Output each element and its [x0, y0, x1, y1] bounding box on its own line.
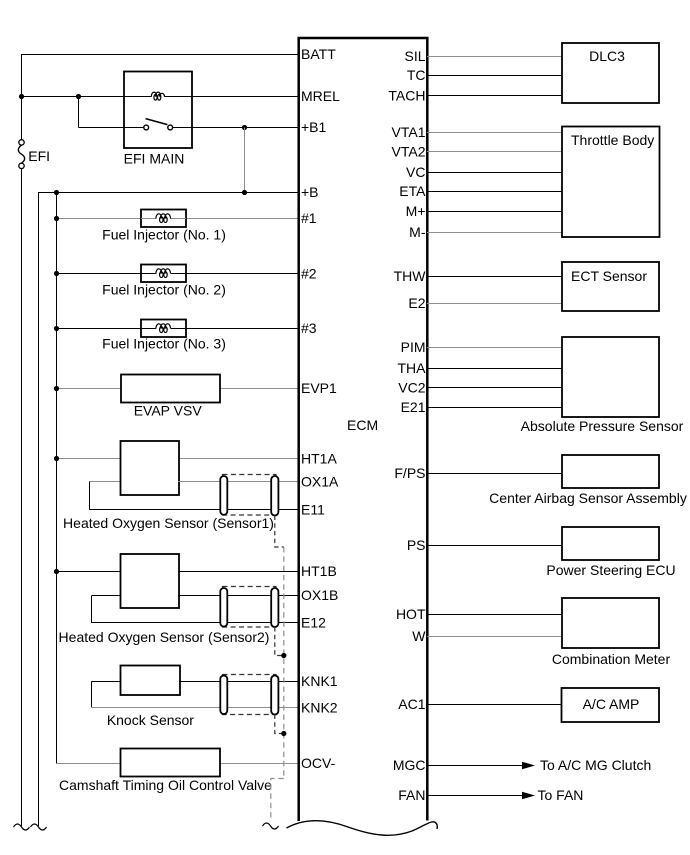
wire +B1 to +B drop	[244, 128, 246, 193]
svg-text:HT1A: HT1A	[301, 451, 337, 467]
svg-text:Absolute Pressure Sensor: Absolute Pressure Sensor	[521, 418, 684, 434]
svg-text:EFI MAIN: EFI MAIN	[124, 151, 185, 167]
svg-text:#3: #3	[301, 320, 317, 336]
svg-text:OX1A: OX1A	[301, 474, 339, 490]
wire VC	[427, 172, 562, 174]
node shield junction HOS2	[281, 653, 286, 658]
wire PS	[427, 545, 562, 547]
svg-text:Knock Sensor: Knock Sensor	[107, 712, 194, 728]
svg-text:AC1: AC1	[398, 696, 425, 712]
ECM bottom break curve	[287, 821, 438, 836]
wire HT1A	[56, 458, 299, 460]
svg-text:+B: +B	[301, 184, 319, 200]
svg-text:#1: #1	[301, 210, 317, 226]
svg-text:Heated Oxygen Sensor (Sensor2): Heated Oxygen Sensor (Sensor2)	[59, 629, 270, 645]
svg-text:W: W	[412, 628, 426, 644]
wire KNK1 through connector	[179, 681, 299, 683]
relay switch wire right	[173, 127, 192, 129]
svg-text:HOT: HOT	[396, 606, 426, 622]
relay coil wire right	[164, 96, 192, 98]
break symbol BATT rail	[14, 824, 30, 830]
injector 2 coil	[156, 269, 171, 278]
svg-text:EVAP VSV: EVAP VSV	[134, 403, 203, 419]
svg-text:M-: M-	[409, 224, 426, 240]
svg-text:E12: E12	[301, 615, 326, 631]
wire BATT horizontal	[21, 54, 299, 56]
node #3 junction	[54, 326, 59, 331]
wire E11 through connector	[178, 509, 299, 511]
wire E12 through connector	[178, 622, 299, 624]
svg-text:VC: VC	[406, 164, 425, 180]
wire OX1A through connector	[178, 481, 299, 483]
svg-text:OCV-: OCV-	[301, 755, 336, 771]
wire OX1B	[178, 595, 299, 597]
svg-text:TC: TC	[407, 67, 426, 83]
svg-text:A/C AMP: A/C AMP	[583, 696, 640, 712]
wire E21	[427, 407, 562, 409]
connector HOS1 capsule left	[220, 476, 227, 515]
wire M+	[427, 211, 562, 213]
shield dashed drop from HOS1	[275, 516, 284, 548]
svg-text:E21: E21	[401, 399, 426, 415]
svg-text:BATT: BATT	[301, 46, 336, 62]
injector 1 wire right	[171, 218, 186, 220]
wire #3	[56, 328, 299, 330]
break symbol +B rail	[31, 824, 47, 830]
injector 1 box	[141, 210, 186, 228]
box Center Airbag Sensor Assembly	[562, 455, 659, 488]
wire KNK2	[91, 707, 299, 709]
relay coil	[151, 92, 164, 100]
svg-text:THW: THW	[394, 268, 427, 284]
node +B drop junction	[242, 190, 247, 195]
svg-text:FAN: FAN	[398, 787, 425, 803]
wire TACH	[427, 95, 562, 97]
box DLC3	[562, 43, 659, 103]
relay switch contact right	[168, 125, 173, 130]
wire EVP1	[56, 388, 299, 390]
wire BATT rail vertical upper	[21, 54, 23, 140]
relay EFI MAIN box	[124, 72, 192, 149]
wire OX1B stub	[92, 595, 122, 597]
wire PIM	[427, 347, 562, 349]
svg-text:THA: THA	[398, 360, 427, 376]
wire KNK2 loop vertical	[91, 682, 93, 708]
wire F/PS	[427, 473, 562, 475]
wire E12 loop vertical	[91, 596, 93, 623]
fuse EFI	[18, 140, 24, 169]
sensor HOS1 box	[121, 441, 180, 495]
svg-text:Heated Oxygen Sensor (Sensor1): Heated Oxygen Sensor (Sensor1)	[63, 515, 274, 531]
wire E12	[91, 622, 299, 624]
relay switch contact left	[144, 125, 149, 130]
wire THA	[427, 368, 562, 370]
svg-text:ETA: ETA	[399, 183, 426, 199]
shield dashed main vertical	[283, 547, 285, 779]
arrowhead FAN	[522, 792, 535, 800]
wire M-	[427, 232, 562, 234]
wire E11 loop vertical	[89, 482, 91, 510]
connector knock dashed rect	[223, 675, 277, 715]
svg-text:To FAN: To FAN	[538, 787, 584, 803]
injector 2 box	[141, 265, 186, 283]
relay coil wire left	[124, 96, 152, 98]
shield dashed bottom jog	[271, 779, 284, 822]
wire W	[427, 636, 562, 638]
wire MREL to +B1 drop	[78, 97, 80, 128]
node MREL rail junction	[19, 94, 24, 99]
injector 3 coil	[156, 324, 171, 333]
wire OCV-	[56, 763, 299, 765]
wire MREL	[21, 96, 299, 98]
wire VTA1	[427, 132, 562, 134]
wire KNK1 stub	[92, 681, 122, 683]
svg-text:PIM: PIM	[401, 339, 426, 355]
wire HOT	[427, 614, 562, 616]
wire SIL	[427, 56, 562, 58]
wire +B rail vertical	[38, 193, 40, 827]
wire ETA	[427, 191, 562, 193]
svg-text:SIL: SIL	[404, 48, 425, 64]
box A/C AMP	[562, 688, 660, 722]
wire E11	[89, 509, 299, 511]
wire THW	[427, 276, 562, 278]
box Combination Meter	[562, 598, 659, 648]
wire HT1B	[56, 571, 299, 573]
injector 1 wire left	[141, 218, 156, 220]
svg-text:Fuel Injector (No. 3): Fuel Injector (No. 3)	[102, 336, 226, 352]
node bus top junction	[54, 190, 59, 195]
wire +B horizontal	[38, 192, 299, 194]
svg-text:ECT Sensor: ECT Sensor	[571, 268, 647, 284]
svg-text:HT1B: HT1B	[301, 563, 337, 579]
injector 3 wire left	[141, 328, 156, 330]
wire OX1B through connector	[178, 595, 299, 597]
svg-text:PS: PS	[407, 537, 426, 553]
svg-text:OX1B: OX1B	[301, 587, 338, 603]
connector HOS2 capsule right	[271, 588, 278, 627]
node #1 junction	[54, 216, 59, 221]
svg-text:Throttle Body: Throttle Body	[571, 132, 654, 148]
arrowhead MGC	[522, 762, 535, 770]
svg-text:+B1: +B1	[301, 119, 327, 135]
svg-text:Fuel Injector (No. 1): Fuel Injector (No. 1)	[102, 227, 226, 243]
node +B1 junction	[242, 125, 247, 130]
svg-text:F/PS: F/PS	[394, 465, 425, 481]
wire +B1	[79, 127, 300, 129]
wire AC1	[427, 704, 562, 706]
node shield junction knock	[281, 731, 286, 736]
svg-text:#2: #2	[301, 266, 317, 282]
box Absolute Pressure Sensor	[562, 337, 659, 417]
valve EVAP VSV box	[121, 375, 220, 403]
injector 3 box	[141, 320, 186, 338]
svg-text:E2: E2	[408, 295, 425, 311]
injector 1 coil	[156, 214, 171, 223]
shield dashed drop from HOS2	[275, 627, 284, 656]
box Throttle Body	[562, 127, 660, 238]
injector 2 wire left	[141, 273, 156, 275]
svg-text:To A/C MG Clutch: To A/C MG Clutch	[540, 757, 651, 773]
svg-text:M+: M+	[406, 203, 426, 219]
svg-text:Fuel Injector (No. 2): Fuel Injector (No. 2)	[102, 282, 226, 298]
wire BATT rail vertical lower	[21, 168, 23, 826]
svg-text:TACH: TACH	[388, 88, 425, 104]
wire #1	[56, 218, 299, 220]
svg-text:MGC: MGC	[393, 757, 426, 773]
svg-text:KNK2: KNK2	[301, 700, 338, 716]
node HT1B junction	[54, 569, 59, 574]
break symbol shield line	[263, 823, 279, 829]
node EVP1 junction	[54, 386, 59, 391]
wire VTA2	[427, 151, 562, 153]
connector knock capsule left	[220, 676, 227, 715]
connector knock capsule right	[271, 676, 278, 715]
connector HOS2 capsule left	[220, 588, 227, 627]
injector 2 wire right	[171, 273, 186, 275]
node MREL branch junction	[76, 94, 81, 99]
svg-text:Power Steering ECU: Power Steering ECU	[546, 562, 675, 578]
box Power Steering ECU	[562, 527, 659, 560]
sensor knock box	[121, 666, 181, 696]
wire TC	[427, 75, 562, 77]
svg-text:VTA2: VTA2	[392, 144, 426, 160]
svg-text:EVP1: EVP1	[301, 380, 337, 396]
sensor HOS2 box	[121, 554, 180, 608]
relay switch blade	[146, 119, 168, 125]
wire KNK2 through connector	[179, 707, 299, 709]
connector HOS1 capsule right	[271, 476, 278, 516]
svg-text:MREL: MREL	[301, 88, 340, 104]
wire OX1A	[178, 481, 299, 483]
box ECT Sensor	[562, 262, 659, 311]
svg-text:ECM: ECM	[347, 417, 378, 433]
wire VC2	[427, 387, 562, 389]
relay switch wire left	[124, 127, 144, 129]
wire OX1A stub	[90, 481, 122, 483]
svg-text:VC2: VC2	[398, 380, 425, 396]
connector HOS1 dashed rect	[223, 475, 277, 516]
valve camshaft timing OCV box	[121, 749, 221, 777]
wire E2	[427, 303, 562, 305]
svg-text:Combination Meter: Combination Meter	[552, 651, 671, 667]
svg-text:DLC3: DLC3	[589, 48, 625, 64]
shield dashed drop from knock	[275, 715, 284, 734]
svg-text:KNK1: KNK1	[301, 673, 338, 689]
svg-text:VTA1: VTA1	[392, 124, 426, 140]
svg-text:Center Airbag Sensor Assembly: Center Airbag Sensor Assembly	[489, 490, 687, 506]
wire #2	[56, 273, 299, 275]
connector HOS2 dashed rect	[223, 587, 277, 628]
svg-text:E11: E11	[301, 502, 325, 518]
wire FAN arrow line	[427, 795, 523, 797]
wire MGC arrow line	[427, 765, 523, 767]
svg-text:EFI: EFI	[28, 148, 50, 164]
node #2 junction	[54, 271, 59, 276]
wire KNK1	[179, 681, 299, 683]
wire supply bus vertical	[56, 193, 58, 764]
ECM box	[299, 38, 428, 821]
svg-text:Camshaft Timing Oil Control Va: Camshaft Timing Oil Control Valve	[59, 777, 272, 793]
node HT1A junction	[54, 456, 59, 461]
injector 3 wire right	[171, 328, 186, 330]
